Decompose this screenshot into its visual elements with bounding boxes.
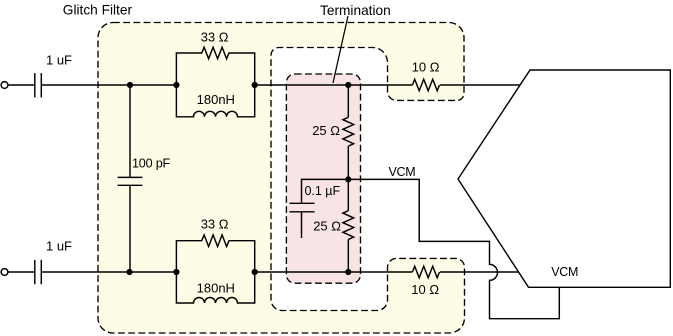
svg-text:180nH: 180nH — [197, 92, 235, 107]
svg-text:10 Ω: 10 Ω — [411, 282, 439, 297]
svg-text:33 Ω: 33 Ω — [201, 29, 229, 44]
svg-text:180nH: 180nH — [197, 280, 235, 295]
svg-text:0.1 µF: 0.1 µF — [304, 184, 340, 198]
svg-text:VCM: VCM — [389, 165, 416, 179]
svg-text:Glitch Filter: Glitch Filter — [63, 3, 133, 18]
svg-text:1 uF: 1 uF — [46, 53, 72, 68]
svg-text:33 Ω: 33 Ω — [201, 217, 229, 232]
svg-text:1 uF: 1 uF — [46, 239, 72, 254]
svg-text:100 pF: 100 pF — [132, 157, 171, 171]
svg-text:25 Ω: 25 Ω — [312, 123, 340, 138]
svg-text:VCM: VCM — [551, 265, 578, 279]
svg-text:Termination: Termination — [320, 3, 391, 18]
svg-text:25 Ω: 25 Ω — [313, 219, 341, 234]
svg-text:10 Ω: 10 Ω — [412, 60, 440, 75]
